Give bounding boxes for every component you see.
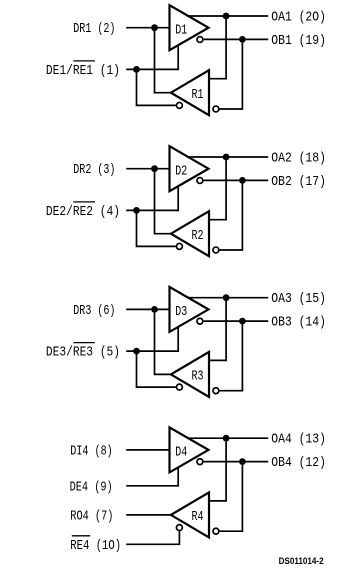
receiver R4 [171, 492, 209, 537]
node DE1/RE1 junction [133, 66, 140, 73]
wire bus B to receiver R4 inverting input [220, 462, 243, 532]
wire bus A to receiver R1 input [208, 16, 226, 79]
wire OB3 output [204, 320, 269, 322]
wire RE1 enable to receiver bubble [137, 69, 176, 105]
wire bus B to receiver R1 inverting input [220, 39, 243, 109]
svg-text:D4: D4 [175, 445, 187, 461]
driver D4 [170, 427, 209, 472]
inverting input bubble on receiver R1 [213, 106, 219, 112]
svg-text:D1: D1 [175, 22, 187, 38]
svg-text:OB1 (19): OB1 (19) [271, 33, 326, 49]
svg-text:OA3 (15): OA3 (15) [271, 291, 326, 307]
receiver R3 [171, 352, 209, 397]
svg-text:D2: D2 [175, 163, 187, 179]
wire DI4 input [126, 449, 170, 451]
wire DR1 input [126, 27, 170, 29]
wire OB2 output [204, 179, 269, 181]
inversion bubble on driver D3 output B [197, 318, 203, 324]
overline over RE2 [73, 201, 95, 203]
svg-text:DE4 (9): DE4 (9) [70, 479, 113, 495]
enable bubble on receiver R1 [176, 102, 182, 108]
node DR3/RO3 junction [151, 306, 158, 313]
svg-text:OB2 (17): OB2 (17) [271, 174, 326, 190]
svg-text:RO4 (7): RO4 (7) [70, 508, 113, 524]
node OB2 junction [239, 177, 246, 184]
inverting input bubble on receiver R4 [213, 528, 219, 534]
wire DE1/RE1 input and riser to driver enable [126, 45, 178, 70]
overline over RE3 [73, 342, 95, 344]
svg-text:OA2 (18): OA2 (18) [271, 151, 326, 167]
svg-text:D3: D3 [175, 304, 187, 320]
svg-text:DE2/RE2 (4): DE2/RE2 (4) [46, 204, 120, 220]
wire RO2 feedback (junction down to receiver output) [155, 169, 172, 234]
node OA4 junction [223, 435, 230, 442]
enable bubble on receiver R2 [176, 243, 182, 249]
svg-text:DR3 (6): DR3 (6) [73, 303, 115, 319]
wire bus B to receiver R2 inverting input [220, 180, 243, 250]
wire RO4 receiver output [126, 514, 172, 516]
wire OA4 output [187, 437, 268, 439]
svg-text:OA4 (13): OA4 (13) [271, 432, 326, 448]
svg-text:DI4 (8): DI4 (8) [70, 443, 112, 459]
svg-text:OB3 (14): OB3 (14) [271, 315, 326, 331]
node OB3 junction [239, 318, 246, 325]
svg-text:R4: R4 [192, 509, 204, 525]
node DE2/RE2 junction [133, 207, 140, 214]
node DE3/RE3 junction [133, 348, 140, 355]
wire OA3 output [187, 297, 268, 299]
wire RE2 enable to receiver bubble [137, 210, 176, 246]
driver D2 [170, 146, 209, 191]
inversion bubble on driver D1 output B [197, 37, 203, 43]
node DR2/RO2 junction [151, 165, 158, 172]
node OA1 junction [223, 13, 230, 20]
driver D1 [170, 5, 209, 50]
wire OB1 output [204, 38, 269, 40]
receiver R2 [171, 211, 209, 256]
wire RE4 enable and riser to receiver bubble [126, 531, 179, 544]
wire DE3/RE3 input and riser to driver enable [126, 326, 178, 351]
inverting input bubble on receiver R2 [213, 247, 219, 253]
wire RO1 feedback (junction down to receiver output) [155, 28, 172, 93]
overline over RE1 [73, 60, 95, 62]
svg-text:DR1 (2): DR1 (2) [73, 21, 115, 37]
svg-text:OA1 (2O): OA1 (2O) [271, 10, 326, 26]
svg-text:R3: R3 [192, 369, 204, 385]
wire bus A to receiver R2 input [208, 157, 226, 220]
wire bus A to receiver R3 input [208, 298, 226, 361]
svg-text:DE1/RE1 (1): DE1/RE1 (1) [46, 63, 120, 79]
inversion bubble on driver D4 output B [197, 459, 203, 465]
svg-text:RE4 (1O): RE4 (1O) [70, 538, 121, 554]
receiver R1 [171, 70, 209, 115]
inverting input bubble on receiver R3 [213, 388, 219, 394]
wire bus A to receiver R4 input [208, 438, 226, 501]
wire DE4 input and riser to driver enable [126, 467, 178, 486]
node OB1 junction [239, 36, 246, 43]
enable bubble on receiver R4 [176, 525, 182, 531]
wire DR3 input [126, 308, 170, 310]
wire RO3 feedback (junction down to receiver output) [155, 309, 172, 374]
svg-text:DR2 (3): DR2 (3) [73, 162, 115, 178]
wire OA1 output [187, 15, 268, 17]
svg-text:DE3/RE3 (5): DE3/RE3 (5) [46, 345, 120, 361]
node OB4 junction [239, 458, 246, 465]
overline over RE4 [72, 535, 90, 537]
node OA2 junction [223, 154, 230, 161]
node OA3 junction [223, 294, 230, 301]
wire OB4 output [204, 461, 269, 463]
wire DE2/RE2 input and riser to driver enable [126, 186, 178, 211]
svg-text:R2: R2 [192, 228, 204, 244]
wire DR2 input [126, 168, 170, 170]
node DR1/RO1 junction [151, 24, 158, 31]
driver D3 [170, 287, 209, 332]
wire OA2 output [187, 156, 268, 158]
svg-text:OB4 (12): OB4 (12) [271, 455, 326, 471]
wire bus B to receiver R3 inverting input [220, 321, 243, 391]
wire RE3 enable to receiver bubble [137, 351, 176, 387]
enable bubble on receiver R3 [176, 384, 182, 390]
inversion bubble on driver D2 output B [197, 178, 203, 184]
svg-text:DS011014-2: DS011014-2 [279, 556, 324, 566]
svg-text:R1: R1 [192, 87, 204, 103]
